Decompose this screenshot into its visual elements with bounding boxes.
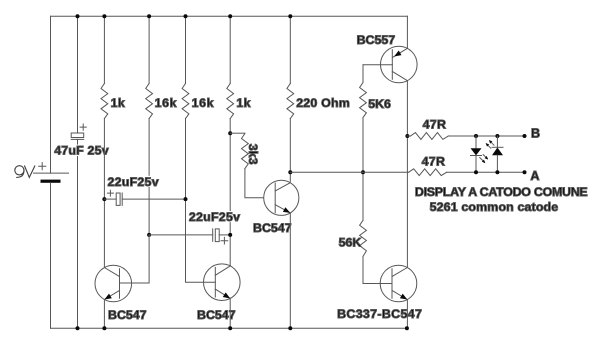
- node B-row tap on collector column: [405, 134, 409, 138]
- resistor R10 47R (A): [409, 169, 447, 176]
- wire Q3 emitter to ground: [229, 298, 231, 328]
- node output A: [523, 170, 527, 174]
- transistor Q2 BC547 (driver): [264, 180, 299, 215]
- wire left rail upper (battery + to top rail): [50, 16, 52, 173]
- wire 220 Ohm down to Q2 collector: [289, 119, 291, 182]
- svg-text:BC547: BC547: [108, 308, 147, 322]
- node bottom rail x=406.9: [405, 326, 409, 330]
- wire 1k R4 down to Q3 collector: [229, 119, 231, 266]
- label 47uF 25v: [54, 144, 111, 158]
- label 22uF25v (C2): [107, 175, 160, 189]
- node bottom rail x=230.2: [228, 326, 232, 330]
- svg-text:3k3: 3k3: [246, 144, 260, 165]
- svg-text:22uF25v: 22uF25v: [189, 210, 240, 224]
- svg-text:B: B: [531, 126, 540, 140]
- node top rail x=104.4: [102, 14, 106, 18]
- resistor R7 3k3: [230, 133, 263, 198]
- capacitor C1 47uF 25v: [71, 124, 86, 139]
- transistor Q3 BC547 (right astable): [204, 264, 241, 301]
- capacitor C3 22uF25v: [149, 229, 230, 244]
- resistor R5 220 Ohm: [287, 16, 294, 118]
- led D2 (cathode up): [486, 136, 503, 172]
- resistor R4 1k: [227, 16, 234, 118]
- wire A row from Q2 collector: [290, 171, 408, 173]
- svg-text:BC547: BC547: [253, 221, 292, 235]
- svg-text:DISPLAY A CATODO COMUNE: DISPLAY A CATODO COMUNE: [415, 185, 588, 199]
- node top rail x=185.5: [184, 14, 188, 18]
- svg-text:5261 common catode: 5261 common catode: [430, 200, 559, 214]
- node LED1 bottom: [474, 170, 478, 174]
- node bottom rail x=104.4: [102, 326, 106, 330]
- resistor R6 5K6: [360, 65, 367, 118]
- resistor R2 16k: [146, 16, 153, 118]
- svg-text:16k: 16k: [155, 96, 178, 110]
- resistor R3 16k: [182, 16, 189, 118]
- wire Q1 emitter to ground: [103, 300, 105, 329]
- node bottom rail x=290.3: [288, 326, 292, 330]
- svg-text:BC337-BC547: BC337-BC547: [337, 307, 422, 321]
- node LED2 top: [495, 134, 499, 138]
- svg-text:47R: 47R: [422, 154, 446, 168]
- svg-text:1k: 1k: [236, 96, 251, 110]
- node Q1 collector / C2 junction: [102, 197, 106, 201]
- transistor Q5 BC337-BC547: [380, 265, 417, 302]
- wire 47uF column lower: [77, 139, 79, 328]
- node bottom rail x=77.5: [76, 326, 80, 330]
- node top rail x=77.5: [76, 14, 80, 18]
- label BC337-BC547: [337, 307, 425, 321]
- battery B1 9V: [34, 163, 69, 183]
- wire A row to output: [447, 171, 525, 173]
- svg-text:16k: 16k: [192, 96, 215, 110]
- svg-text:56K: 56K: [339, 235, 362, 249]
- wire Q4 emitter to top rail: [406, 16, 408, 48]
- wire 16k R3 down then right to Q3 base: [186, 119, 216, 283]
- wire bottom ground rail: [51, 327, 408, 329]
- wire 56K down then right to Q5 base: [363, 257, 392, 284]
- transistor Q4 BC557 (PNP): [381, 46, 418, 83]
- node C3 left on R2 column: [147, 233, 151, 237]
- transistor Q1 BC547 (left astable): [95, 265, 132, 302]
- node top rail x=149.1: [147, 14, 151, 18]
- resistor R8 56K: [360, 220, 367, 256]
- svg-text:A: A: [530, 169, 539, 183]
- wire R2 column down then left to Q1 base: [120, 235, 150, 283]
- svg-text:BC557: BC557: [357, 33, 396, 47]
- node Q2 collector / A-wire tap: [288, 170, 292, 174]
- wire 5K6 down to A-row tap: [362, 118, 364, 221]
- label 9V: [15, 166, 35, 178]
- node A-row tap on 56K column: [361, 170, 365, 174]
- node C2 right on R3 column: [184, 197, 188, 201]
- wire Q4 base from 5K6: [363, 64, 392, 66]
- svg-text:22uF25v: 22uF25v: [108, 175, 159, 189]
- wire 47uF column upper: [77, 16, 79, 133]
- node top rail x=290.3: [288, 14, 292, 18]
- node LED2 bottom: [495, 170, 499, 174]
- node output B: [523, 134, 527, 138]
- node LED1 top: [474, 134, 478, 138]
- wire Q4 collector down to Q5 collector: [406, 81, 408, 267]
- wire B row to output: [448, 135, 524, 137]
- node 3k3 tap on R4 column: [228, 131, 232, 135]
- resistor R9 47R (B): [407, 133, 448, 140]
- wire Q5 emitter to ground: [406, 300, 408, 328]
- wire 1k R1 to Q1 collector: [103, 119, 105, 267]
- wire top supply rail: [51, 15, 408, 17]
- led D1 (cathode down): [471, 136, 489, 172]
- svg-text:220 Ohm: 220 Ohm: [296, 96, 350, 110]
- svg-text:47uF 25v: 47uF 25v: [54, 144, 109, 158]
- node top rail x=230.2: [228, 14, 232, 18]
- svg-text:47R: 47R: [423, 117, 447, 131]
- resistor R1 1k: [101, 16, 108, 118]
- svg-text:1k: 1k: [111, 96, 126, 110]
- capacitor C2 22uF25v: [104, 190, 185, 205]
- wire Q2 emitter to ground: [289, 213, 291, 328]
- node C3 right on R4 column: [228, 233, 232, 237]
- wire 16k R2 down to C3 node: [148, 119, 150, 235]
- label 22uF25v (C3): [188, 210, 241, 224]
- svg-text:5K6: 5K6: [368, 97, 391, 111]
- wire left rail lower (battery - to bottom rail): [50, 183, 52, 328]
